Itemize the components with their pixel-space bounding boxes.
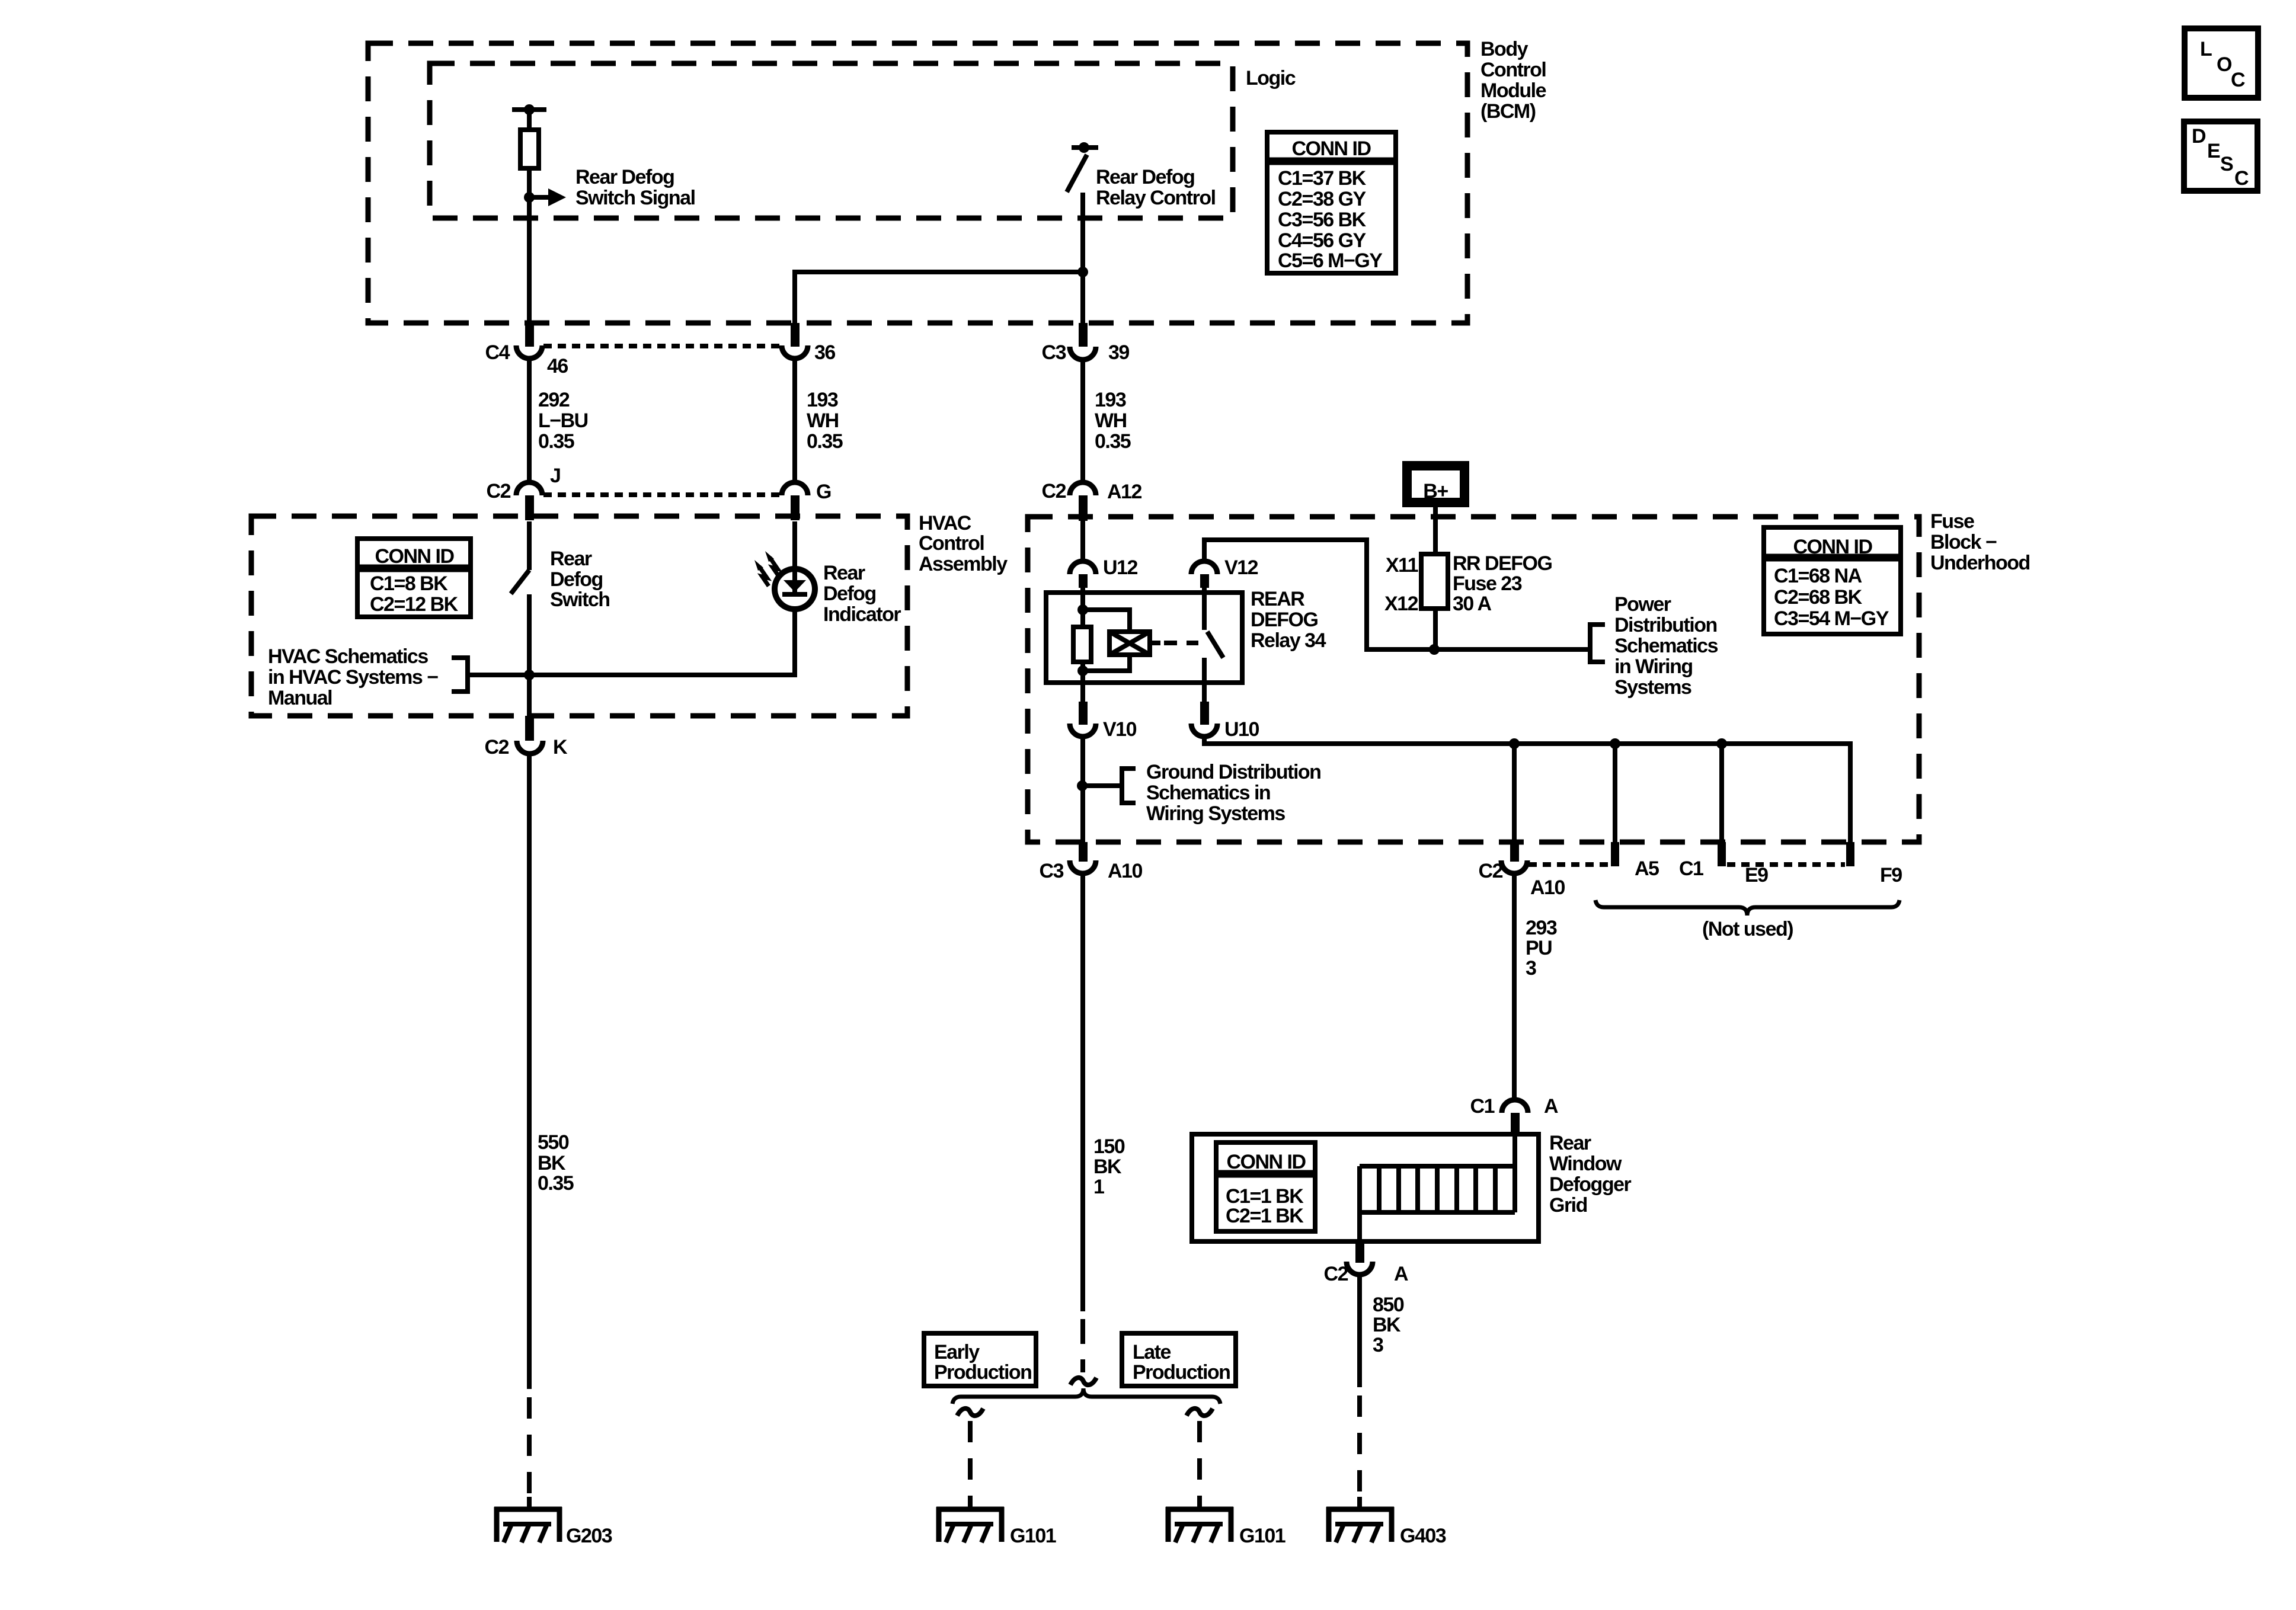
svg-text:RR DEFOG: RR DEFOG (1453, 552, 1552, 575)
svg-text:C2=68 BK: C2=68 BK (1774, 586, 1863, 609)
svg-text:Module: Module (1480, 79, 1546, 102)
svg-text:39: 39 (1108, 341, 1129, 364)
wire: U10 lower lead (1202, 683, 1207, 702)
svg-text:Relay Control: Relay Control (1096, 187, 1216, 209)
Late Production box (1122, 1333, 1236, 1386)
wire: resistor top tie bar (512, 107, 546, 112)
svg-text:G101: G101 (1239, 1525, 1285, 1547)
node: coil bottom junction dot (1077, 665, 1088, 676)
svg-text:0.35: 0.35 (538, 1172, 574, 1195)
svg-text:Production: Production (934, 1361, 1031, 1384)
connector pin V10 (1079, 702, 1088, 725)
svg-text:Power: Power (1614, 593, 1671, 616)
wire: U12 to relay coil (1080, 587, 1085, 627)
wire: BCM pin 46 lead down to C4 (527, 197, 532, 324)
relay coil branch wiring (1083, 610, 1130, 633)
Early Production box (924, 1333, 1036, 1386)
Body Control Module (BCM) dashed box (368, 43, 1467, 323)
svg-text:30 A: 30 A (1453, 593, 1492, 615)
svg-text:Production: Production (1133, 1361, 1230, 1384)
svg-text:0.35: 0.35 (807, 430, 843, 453)
relay actuation dashed link (1164, 641, 1198, 645)
svg-text:3: 3 (1373, 1334, 1383, 1356)
svg-text:BK: BK (1093, 1156, 1122, 1178)
svg-text:C1: C1 (1679, 857, 1703, 880)
svg-text:A: A (1394, 1263, 1408, 1285)
connector pin U10 (1200, 702, 1209, 725)
svg-text:A10: A10 (1530, 876, 1565, 899)
svg-text:L: L (2200, 38, 2212, 60)
svg-text:E: E (2207, 140, 2220, 162)
ground G403 (1326, 1507, 1394, 1542)
relay switch contacts (1202, 593, 1207, 630)
relay solenoid winding symbol (1109, 632, 1150, 655)
svg-text:(Not used): (Not used) (1702, 918, 1793, 940)
CONN ID table Fuse Block (1764, 527, 1901, 634)
svg-text:C: C (2234, 167, 2249, 190)
svg-text:C1=37 BK: C1=37 BK (1278, 167, 1367, 190)
svg-text:B+: B+ (1423, 480, 1448, 502)
switch: rear defog relay control driver (1072, 145, 1098, 150)
pin stub E9 (1718, 842, 1726, 866)
pin stub A5 (1611, 842, 1619, 866)
svg-text:C2=1 BK: C2=1 BK (1226, 1205, 1304, 1227)
svg-text:D: D (2192, 125, 2206, 148)
node: coil top junction dot (1077, 604, 1088, 615)
svg-text:Defog: Defog (550, 568, 603, 591)
svg-text:G101: G101 (1010, 1525, 1056, 1547)
node: bus dot at E9 (1716, 738, 1727, 749)
svg-text:Body: Body (1480, 38, 1528, 60)
svg-text:Assembly: Assembly (919, 553, 1008, 575)
connector C2 pin A10 (1510, 842, 1519, 862)
relay box: REAR DEFOG Relay 34 (1046, 593, 1242, 683)
ground G101 late (1166, 1507, 1233, 1542)
wire: switch signal arrow head (548, 188, 566, 206)
wire 150 BK: C3 A10 down solid part (1080, 873, 1085, 1311)
wire: tap to ground distribution bracket (1082, 783, 1122, 788)
node: ground schematic tap junction dot (1077, 780, 1088, 791)
svg-text:0.35: 0.35 (538, 430, 574, 453)
svg-text:Defogger: Defogger (1549, 1173, 1632, 1196)
svg-text:C2: C2 (485, 736, 509, 758)
svg-text:C2=38 GY: C2=38 GY (1278, 188, 1367, 210)
svg-text:Rear Defog: Rear Defog (1096, 166, 1194, 188)
svg-text:CONN ID: CONN ID (1793, 536, 1872, 558)
svg-text:A: A (1544, 1095, 1558, 1118)
svg-text:Systems: Systems (1614, 676, 1691, 699)
svg-text:C4: C4 (485, 341, 510, 364)
svg-text:U10: U10 (1224, 718, 1259, 741)
CONN ID table Defogger Grid (1216, 1142, 1315, 1231)
node: fuse output junction dot (1429, 644, 1440, 655)
connector C2 pin G (782, 482, 808, 495)
svg-text:C1=8 BK: C1=8 BK (370, 572, 448, 595)
not used brace (1595, 900, 1900, 916)
svg-text:Fuse 23: Fuse 23 (1453, 572, 1522, 595)
wire 292 L-BU: C4 to C2 J (527, 357, 532, 483)
svg-text:C3=54 M−GY: C3=54 M−GY (1774, 607, 1889, 630)
node: resistor top junction dot (524, 104, 535, 115)
wire: drop to C2 A10 (1512, 744, 1517, 843)
pin stub F9 (1846, 842, 1854, 866)
svg-text:C2=12 BK: C2=12 BK (370, 593, 459, 616)
splice tilde early branch (957, 1409, 983, 1416)
svg-text:in HVAC Systems −: in HVAC Systems − (268, 666, 438, 689)
wire 850 BK: C2 A down solid part (1357, 1274, 1362, 1387)
switch: rear defog switch (HVAC) (511, 570, 529, 594)
svg-text:Underhood: Underhood (1930, 552, 2030, 574)
svg-text:Schematics: Schematics (1614, 635, 1718, 657)
splice tilde on 150 BK (1070, 1378, 1096, 1385)
svg-text:Switch: Switch (550, 588, 610, 611)
svg-text:Grid: Grid (1549, 1194, 1587, 1217)
wire: indicator top lead (792, 521, 797, 570)
svg-text:BK: BK (1373, 1314, 1401, 1336)
svg-text:G: G (816, 481, 831, 503)
LED emission arrows (770, 558, 779, 577)
wire 850 BK: dashed part to G403 (1357, 1395, 1362, 1507)
node: bus dot at A5 (1610, 738, 1620, 749)
svg-text:Early: Early (934, 1341, 980, 1363)
svg-text:292: 292 (538, 389, 570, 411)
svg-text:C5=6 M−GY: C5=6 M−GY (1278, 249, 1383, 272)
svg-text:Rear: Rear (550, 548, 592, 570)
dotted connector line C2 A10 to A5 (1528, 862, 1610, 867)
svg-text:U12: U12 (1103, 556, 1137, 579)
connector C1 pin A (1502, 1100, 1528, 1113)
fuse 23 RR DEFOG 30 A (1421, 554, 1448, 609)
dotted connector line E9 to F9 (1727, 862, 1845, 867)
svg-text:C4=56 GY: C4=56 GY (1278, 229, 1367, 252)
svg-text:46: 46 (547, 355, 568, 377)
wire 193 WH: 36 to G (792, 357, 797, 483)
connector C3 pin 39 (1079, 323, 1088, 347)
svg-text:HVAC Schematics: HVAC Schematics (268, 645, 428, 668)
resistor: rear defog switch signal pull-up (520, 130, 539, 168)
svg-text:PU: PU (1526, 937, 1552, 959)
svg-text:WH: WH (1095, 409, 1127, 432)
connector C2 pin A12 (1070, 482, 1096, 495)
wire: V12 riser and link to fuse node (1204, 540, 1590, 649)
CONN ID table BCM (1267, 132, 1396, 273)
connector C2 pin J (516, 482, 542, 495)
connector C4 pin 46 (525, 323, 534, 347)
wire: V10 to C3 A10 (1080, 736, 1085, 843)
svg-text:36: 36 (814, 341, 835, 364)
rear window defogger grid box (1192, 1134, 1539, 1241)
connector C4 pin 36 (791, 323, 800, 347)
wire: G403 entry stub (1357, 1497, 1362, 1509)
svg-text:C2: C2 (1479, 860, 1503, 882)
node: relay control junction dot (1077, 267, 1088, 277)
Fuse Block Underhood dashed box (1028, 517, 1919, 842)
wire: through LED to bottom corner (792, 596, 797, 677)
svg-text:Ground Distribution: Ground Distribution (1146, 761, 1320, 783)
wire 193 WH: C3 39 to C2 A12 (1080, 359, 1085, 483)
wire: U10 distribution bus (1204, 736, 1850, 842)
wire: late production dashed drop (1197, 1421, 1202, 1507)
svg-text:L−BU: L−BU (538, 409, 588, 432)
wire: C1 A into grid box (1512, 1133, 1517, 1166)
wire: resistor top stub (527, 110, 532, 132)
svg-text:K: K (553, 736, 568, 758)
production split brace (952, 1388, 1220, 1404)
svg-text:Wiring Systems: Wiring Systems (1146, 802, 1285, 825)
svg-text:REAR: REAR (1251, 588, 1304, 610)
svg-text:Control: Control (1480, 59, 1546, 81)
svg-text:Late: Late (1133, 1341, 1171, 1363)
svg-text:G203: G203 (566, 1525, 612, 1547)
connector C2 pin A (1355, 1241, 1364, 1263)
svg-text:0.35: 0.35 (1095, 430, 1131, 453)
defogger grid element (1360, 1164, 1515, 1169)
svg-text:C: C (2231, 69, 2245, 91)
svg-text:850: 850 (1373, 1294, 1404, 1316)
wire 550 BK: C2 K to G203 solid part (527, 753, 532, 1389)
connector pin V12 (1191, 561, 1217, 574)
wire: HVAC internal bus to indicator (469, 673, 795, 677)
svg-text:3: 3 (1526, 957, 1536, 980)
LED: rear defog indicator (775, 569, 815, 609)
svg-text:C2: C2 (487, 480, 511, 502)
svg-text:C2: C2 (1324, 1263, 1348, 1285)
wire: A12 to U12 inside fuse block (1080, 520, 1085, 562)
svg-text:A10: A10 (1108, 860, 1142, 882)
svg-text:550: 550 (538, 1131, 569, 1154)
svg-text:Defog: Defog (823, 582, 876, 605)
svg-text:150: 150 (1093, 1135, 1125, 1158)
svg-text:HVAC: HVAC (919, 512, 971, 534)
svg-text:in Wiring: in Wiring (1614, 655, 1693, 678)
svg-text:Block −: Block − (1930, 531, 1997, 553)
svg-text:Control: Control (919, 532, 984, 555)
wire: drop to E9 (1719, 744, 1724, 842)
wire: fuse to output node (1433, 609, 1438, 649)
svg-text:F9: F9 (1880, 864, 1902, 886)
svg-text:Relay 34: Relay 34 (1251, 629, 1326, 652)
svg-text:A12: A12 (1107, 481, 1141, 503)
DESC box (2184, 121, 2257, 191)
svg-text:C1: C1 (1470, 1095, 1495, 1118)
ground G203 (494, 1507, 562, 1542)
wire 550 BK: dashed part to G203 (527, 1397, 532, 1507)
wire: HVAC switch feed (527, 521, 532, 570)
svg-text:(BCM): (BCM) (1480, 100, 1536, 123)
node: switch signal junction dot (524, 192, 535, 203)
svg-text:Schematics in: Schematics in (1146, 782, 1270, 804)
svg-text:Distribution: Distribution (1614, 614, 1717, 636)
reference bracket: HVAC schematics (452, 658, 468, 692)
svg-text:J: J (550, 465, 560, 487)
svg-text:X12: X12 (1384, 593, 1418, 615)
HVAC Control Assembly dashed box (251, 516, 907, 716)
svg-text:A5: A5 (1635, 857, 1659, 880)
connector C3 pin A10 (1079, 842, 1088, 862)
svg-text:193: 193 (807, 389, 838, 411)
svg-text:DEFOG: DEFOG (1251, 609, 1318, 631)
wire 150 BK: dashed split part (1080, 1319, 1085, 1372)
wire: HVAC switch lower lead (527, 594, 532, 716)
svg-text:Rear: Rear (823, 562, 865, 584)
svg-text:193: 193 (1095, 389, 1126, 411)
wire: switch signal arrow shaft (529, 195, 549, 200)
reference bracket: ground distribution (1122, 769, 1136, 803)
svg-text:C2: C2 (1042, 480, 1066, 502)
svg-text:CONN ID: CONN ID (1226, 1151, 1306, 1173)
connector pin U12 (1070, 561, 1096, 574)
svg-text:C3: C3 (1042, 341, 1066, 364)
svg-text:V12: V12 (1224, 556, 1258, 579)
svg-text:BK: BK (538, 1152, 566, 1174)
B+ battery feed box (1407, 466, 1464, 502)
svg-text:C3: C3 (1040, 860, 1064, 882)
svg-text:C1=68 NA: C1=68 NA (1774, 565, 1862, 587)
svg-text:Rear: Rear (1549, 1132, 1591, 1154)
svg-text:Fuse: Fuse (1930, 510, 1974, 533)
svg-text:Window: Window (1549, 1153, 1622, 1175)
wire: drop to A5 (1613, 744, 1617, 842)
svg-text:CONN ID: CONN ID (375, 545, 454, 568)
svg-text:Indicator: Indicator (823, 603, 901, 626)
wire: G203 entry stub (527, 1497, 532, 1509)
node: HVAC switch output junction dot (524, 670, 535, 680)
svg-text:WH: WH (807, 409, 839, 432)
wire: BCM internal relay control link (795, 272, 1083, 324)
splice tilde late branch (1187, 1409, 1213, 1416)
svg-text:V10: V10 (1103, 718, 1137, 741)
wire: coil bottom to V10 (1080, 662, 1085, 702)
svg-text:X11: X11 (1386, 554, 1418, 577)
Logic dashed box (430, 63, 1233, 218)
wire 293 PU: C2 A10 to C1 A (1512, 873, 1517, 1100)
wire: B+ to fuse (1433, 507, 1438, 554)
wire: V12 stub to relay box (1202, 587, 1207, 593)
dotted connector line C4 to 36 (543, 344, 781, 348)
LOC box (2185, 28, 2258, 98)
svg-text:CONN ID: CONN ID (1291, 137, 1371, 160)
relay coil resistance element (1073, 627, 1091, 662)
wire: early production dashed drop (968, 1421, 973, 1507)
svg-text:Manual: Manual (268, 687, 332, 709)
wire: relay control switch lower lead (1080, 193, 1085, 324)
svg-text:293: 293 (1526, 917, 1557, 939)
svg-text:S: S (2220, 153, 2233, 175)
svg-text:E9: E9 (1745, 864, 1768, 886)
svg-text:Rear Defog: Rear Defog (575, 166, 674, 188)
CONN ID table HVAC (357, 539, 471, 617)
node: bus dot at C2 A10 (1509, 738, 1520, 749)
dotted connector line J to G (543, 492, 781, 497)
reference bracket: power distribution (1590, 625, 1605, 662)
svg-text:Logic: Logic (1246, 67, 1296, 89)
svg-text:Switch Signal: Switch Signal (575, 187, 695, 209)
wire: resistor to switch-signal junction (527, 167, 532, 197)
svg-text:G403: G403 (1400, 1525, 1446, 1547)
svg-text:C3=56 BK: C3=56 BK (1278, 209, 1367, 231)
connector C2 pin K (525, 716, 534, 741)
ground G101 early (936, 1507, 1004, 1542)
svg-text:1: 1 (1093, 1176, 1104, 1198)
svg-text:O: O (2217, 53, 2232, 76)
